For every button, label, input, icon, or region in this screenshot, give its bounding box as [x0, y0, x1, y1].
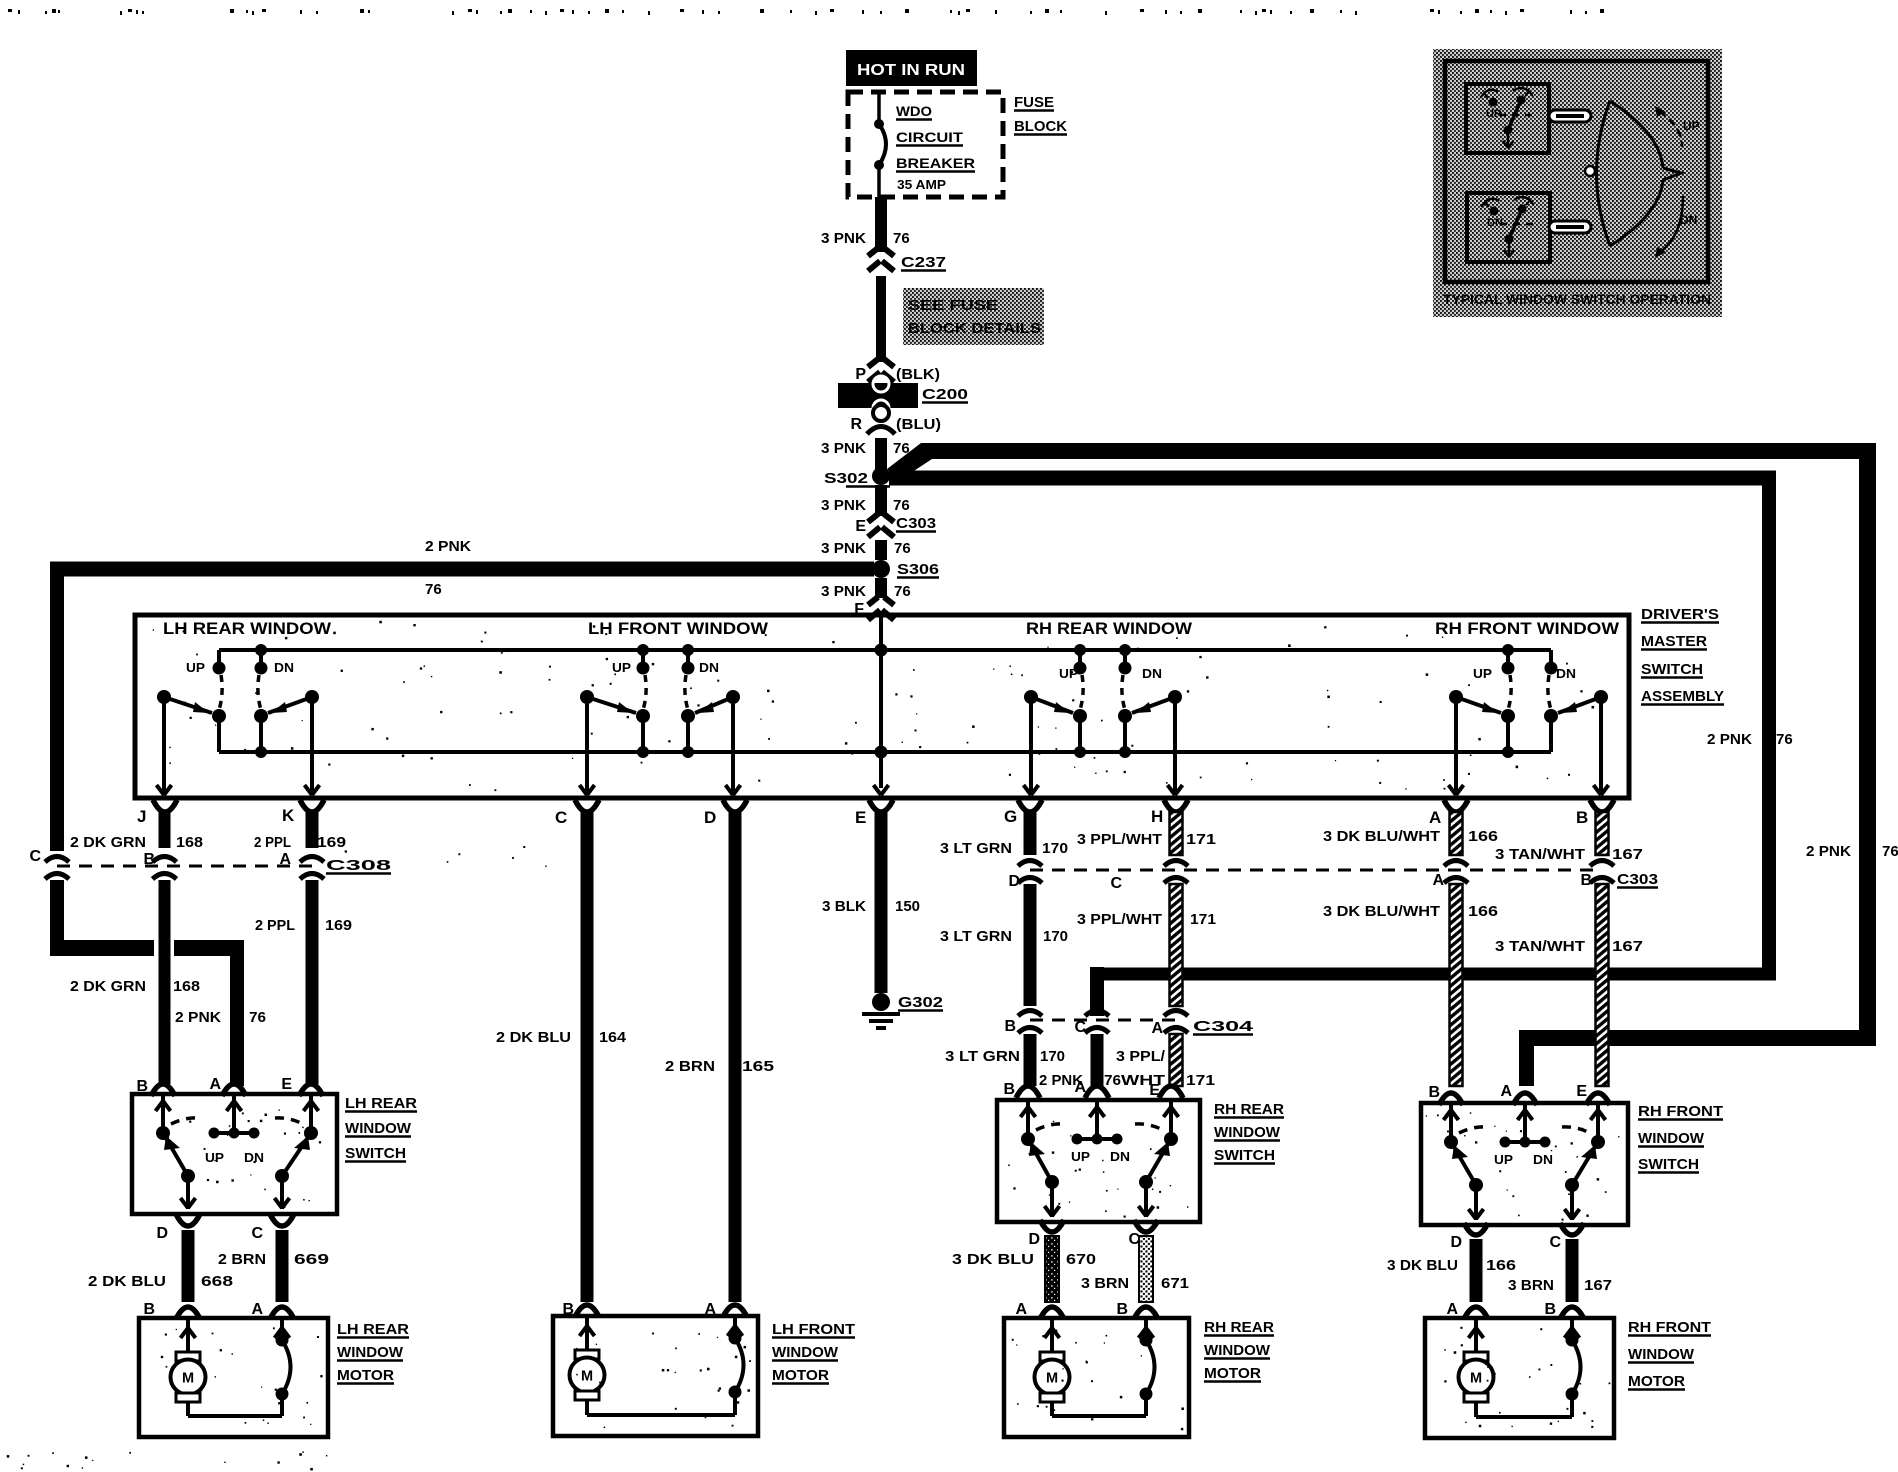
wire 3 PNK 76 (C200 to S302): [875, 438, 887, 470]
svg-text:3 TAN/WHT: 3 TAN/WHT: [1495, 846, 1585, 863]
svg-text:B: B: [143, 851, 155, 868]
svg-text:E: E: [855, 518, 866, 535]
svg-text:3 DK BLU/WHT: 3 DK BLU/WHT: [1323, 903, 1440, 920]
svg-text:G: G: [1004, 807, 1017, 826]
svg-text:J: J: [137, 807, 146, 826]
svg-text:76: 76: [1776, 731, 1793, 748]
svg-text:DN: DN: [699, 660, 719, 675]
bus (lower feed) in master switch assembly: [219, 750, 1551, 754]
svg-text:2 DK BLU: 2 DK BLU: [88, 1273, 166, 1290]
svg-text:2 BRN: 2 BRN: [665, 1058, 715, 1075]
svg-text:M: M: [182, 1371, 194, 1387]
svg-text:CIRCUIT: CIRCUIT: [896, 129, 964, 145]
svg-text:LH REAR: LH REAR: [337, 1321, 409, 1338]
svg-text:UP: UP: [1059, 666, 1078, 681]
svg-text:WINDOW: WINDOW: [1214, 1124, 1281, 1141]
LH front window switch (master assembly): [641, 650, 645, 665]
svg-text:76: 76: [893, 230, 910, 247]
inset UP terminal blade: [1549, 110, 1591, 122]
svg-text:B: B: [1003, 1081, 1015, 1098]
svg-text:RH FRONT: RH FRONT: [1638, 1103, 1723, 1120]
svg-text:670: 670: [1066, 1251, 1096, 1268]
svg-text:3 BRN: 3 BRN: [1081, 1275, 1129, 1292]
svg-text:A: A: [1015, 1301, 1027, 1318]
svg-text:DN: DN: [1680, 213, 1697, 227]
svg-text:C237: C237: [901, 254, 946, 271]
svg-text:A: A: [1446, 1301, 1458, 1318]
wire 3 PNK 76 (C303 to S306): [875, 540, 887, 560]
svg-text:2 PNK: 2 PNK: [175, 1009, 221, 1026]
svg-text:C308: C308: [326, 857, 391, 874]
splice S306: [872, 560, 890, 578]
svg-text:LH FRONT: LH FRONT: [772, 1321, 855, 1338]
LH rear window switch (master assembly): [217, 650, 221, 665]
svg-text:B: B: [1544, 1301, 1556, 1318]
svg-text:BREAKER: BREAKER: [896, 155, 975, 171]
svg-text:R: R: [850, 416, 862, 433]
svg-text:3 DK BLU: 3 DK BLU: [1387, 1257, 1458, 1274]
inset rocker button: [1597, 101, 1611, 246]
svg-text:C: C: [29, 848, 41, 865]
svg-text:76: 76: [894, 540, 911, 557]
bus (upper feed) in master switch assembly: [219, 648, 1551, 652]
svg-text:168: 168: [176, 834, 203, 851]
svg-text:3 PNK: 3 PNK: [821, 540, 866, 557]
svg-text:2 DK BLU: 2 DK BLU: [496, 1029, 571, 1046]
svg-text:LH REAR WINDOW: LH REAR WINDOW: [163, 619, 332, 638]
svg-text:BLOCK DETAILS: BLOCK DETAILS: [908, 320, 1041, 337]
wire 3 LT GRN 170 (pin G to C303): [1024, 812, 1037, 855]
svg-text:SWITCH: SWITCH: [345, 1145, 406, 1162]
wire 3 PPL/WHT 171 (pin H to C303): [1170, 812, 1183, 855]
svg-text:A: A: [1151, 1020, 1163, 1037]
splice S302: [872, 467, 890, 485]
svg-text:UP: UP: [1683, 119, 1700, 133]
svg-text:76: 76: [894, 583, 911, 600]
svg-text:3 PNK: 3 PNK: [821, 583, 866, 600]
svg-text:3 LT GRN: 3 LT GRN: [940, 928, 1012, 945]
svg-text:2 BRN: 2 BRN: [218, 1251, 266, 1268]
svg-text:H: H: [1151, 807, 1163, 826]
inset DN terminal blade: [1549, 221, 1591, 233]
svg-text:3 PNK: 3 PNK: [821, 230, 866, 247]
svg-text:668: 668: [201, 1273, 233, 1290]
wire 2 PNK 76 (C304 to RH rear switch pin A): [1091, 1034, 1104, 1086]
svg-text:HOT IN RUN: HOT IN RUN: [857, 62, 965, 79]
RH front window switch (master assembly): [1506, 650, 1510, 665]
svg-text:UP: UP: [186, 660, 205, 675]
svg-text:168: 168: [173, 978, 200, 995]
svg-text:2 PNK: 2 PNK: [1707, 731, 1752, 748]
wire 3 TAN/WHT 167 (C303 to RH front switch pin E): [1596, 884, 1609, 1086]
svg-text:LH FRONT WINDOW: LH FRONT WINDOW: [588, 619, 769, 638]
svg-text:E: E: [855, 808, 866, 827]
svg-text:2 PNK: 2 PNK: [1806, 843, 1851, 860]
svg-text:A: A: [704, 1301, 716, 1318]
wire 2 DK GRN 168 (C308 to LH rear switch pin B): [159, 880, 171, 1084]
svg-text:76: 76: [1104, 1072, 1121, 1089]
ground G302: [872, 993, 890, 1011]
svg-text:35 AMP: 35 AMP: [897, 177, 946, 192]
svg-text:2 PPL: 2 PPL: [254, 834, 291, 851]
svg-text:3 BLK: 3 BLK: [822, 898, 866, 915]
svg-text:DN: DN: [1533, 1152, 1553, 1167]
svg-text:76: 76: [425, 581, 442, 598]
svg-text:S306: S306: [897, 561, 939, 578]
wire 3 DK BLU/WHT 166 (C303 to RH front switch pin B): [1450, 884, 1463, 1086]
wire 3 PPL/WHT 171 (C304 to RH rear switch pin E): [1170, 1034, 1183, 1086]
svg-text:165: 165: [742, 1058, 774, 1075]
svg-text:B: B: [136, 1078, 148, 1095]
svg-text:171: 171: [1186, 1072, 1215, 1089]
power source label HOT IN RUN: [846, 50, 977, 86]
svg-text:SEE FUSE: SEE FUSE: [908, 297, 998, 314]
svg-text:(BLU): (BLU): [896, 416, 941, 433]
driver's master window switch assembly box: [135, 615, 1629, 798]
svg-text:UP: UP: [1494, 1152, 1513, 1167]
inset UP switch box: [1466, 84, 1549, 153]
circuit breaker WDO 35 AMP: [877, 94, 881, 122]
LH rear window motor (M): [139, 1318, 328, 1437]
svg-text:A: A: [209, 1076, 221, 1093]
wire 2 PNK 76 (C308 pin C to LH rear switch pin A): [50, 880, 64, 948]
svg-text:C303: C303: [1617, 871, 1658, 888]
svg-text:171: 171: [1186, 831, 1216, 848]
svg-text:3 PNK: 3 PNK: [821, 440, 866, 457]
LH front window motor (M): [553, 1316, 758, 1436]
svg-text:B: B: [1116, 1301, 1128, 1318]
fuse block (dashed) with label: [848, 92, 1003, 197]
svg-text:76: 76: [893, 497, 910, 514]
RH rear window switch (master assembly): [1078, 650, 1082, 665]
connector C200: [838, 383, 918, 408]
svg-text:UP: UP: [1473, 666, 1492, 681]
svg-text:2 DK GRN: 2 DK GRN: [70, 978, 146, 995]
wire 3 DK BLU 166 (RH front switch D to motor A): [1470, 1239, 1483, 1302]
svg-text:166: 166: [1468, 828, 1498, 845]
wire 3 BRN 167 (RH front switch C to motor B): [1566, 1239, 1579, 1302]
feed line pin F to buses: [879, 617, 883, 788]
wire 2 PNK 76 (S302 inner loop to C304 pin C): [889, 471, 1776, 486]
svg-text:SWITCH: SWITCH: [1638, 1156, 1699, 1173]
wire 3 PPL/WHT 171 (C303 to C304): [1170, 884, 1183, 1006]
svg-text:2 PPL: 2 PPL: [255, 917, 295, 934]
svg-text:B: B: [1004, 1018, 1016, 1035]
svg-text:3 BRN: 3 BRN: [1508, 1277, 1554, 1294]
svg-text:B: B: [1428, 1084, 1440, 1101]
note SEE FUSE BLOCK DETAILS: [903, 288, 1044, 345]
svg-text:D: D: [1008, 873, 1020, 890]
scan speckle noise: [500, 713, 502, 715]
svg-text:C: C: [251, 1225, 263, 1242]
svg-text:WINDOW: WINDOW: [772, 1344, 839, 1361]
connector C304: [1030, 1019, 1176, 1022]
svg-text:ASSEMBLY: ASSEMBLY: [1641, 688, 1724, 705]
svg-text:A: A: [279, 851, 291, 868]
wire 3 DK BLU/WHT 166 (pin A to C303): [1450, 812, 1463, 855]
svg-text:164: 164: [599, 1029, 627, 1046]
svg-text:UP: UP: [1071, 1149, 1090, 1164]
LH rear window switch pins D and C: [176, 1214, 200, 1226]
svg-text:WINDOW: WINDOW: [345, 1120, 412, 1137]
svg-text:A: A: [1429, 808, 1441, 827]
svg-text:P: P: [855, 366, 866, 383]
svg-text:3 LT GRN: 3 LT GRN: [945, 1048, 1020, 1065]
svg-text:3 TAN/WHT: 3 TAN/WHT: [1495, 938, 1585, 955]
wire 3 PNK (C237 to C200 pin P): [876, 276, 886, 362]
svg-text:170: 170: [1043, 928, 1068, 945]
wire 2 DK BLU 164 (pin C to LH front motor pin B): [581, 812, 594, 1302]
svg-text:2 DK GRN: 2 DK GRN: [70, 834, 146, 851]
wire 3 DK BLU 670 (RH rear switch D to motor A): [1045, 1236, 1059, 1302]
wire 2 BRN 165 (pin D to LH front motor pin A): [729, 812, 742, 1302]
connector C308: [57, 865, 312, 868]
svg-text:169: 169: [317, 834, 346, 851]
RH front window switch: [1421, 1103, 1628, 1225]
svg-text:MOTOR: MOTOR: [1204, 1365, 1261, 1382]
svg-text:DN: DN: [1487, 217, 1503, 229]
svg-text:D: D: [1450, 1234, 1462, 1251]
svg-text:B: B: [1576, 808, 1588, 827]
svg-text:167: 167: [1612, 938, 1643, 955]
wire 2 PPL 169 (pin K to C308): [306, 812, 319, 848]
svg-text:S302: S302: [824, 470, 868, 487]
svg-text:170: 170: [1040, 1048, 1065, 1065]
svg-text:671: 671: [1161, 1275, 1189, 1292]
wire 2 PPL 169 (C308 to LH rear switch pin E): [306, 880, 319, 1084]
svg-text:RH FRONT WINDOW: RH FRONT WINDOW: [1435, 619, 1620, 638]
svg-text:MASTER: MASTER: [1641, 633, 1707, 650]
svg-text:C: C: [1549, 1234, 1561, 1251]
svg-text:76: 76: [1882, 843, 1898, 860]
svg-text:RH REAR: RH REAR: [1214, 1101, 1284, 1118]
svg-text:WINDOW: WINDOW: [1638, 1130, 1705, 1147]
svg-text:DN: DN: [1556, 666, 1576, 681]
svg-text:166: 166: [1468, 903, 1498, 920]
wire 3 LT GRN 170 (C304 to RH rear switch pin B): [1024, 1034, 1037, 1086]
svg-text:M: M: [1046, 1371, 1058, 1387]
svg-text:A: A: [1500, 1083, 1512, 1100]
svg-text:B: B: [1580, 872, 1592, 889]
wire 3 PNK 76 (S306 to master switch pin F): [875, 578, 887, 598]
svg-text:UP: UP: [205, 1150, 224, 1165]
svg-text:SWITCH: SWITCH: [1214, 1147, 1275, 1164]
svg-text:RH REAR WINDOW: RH REAR WINDOW: [1026, 619, 1193, 638]
svg-text:3 PPL/WHT: 3 PPL/WHT: [1077, 911, 1162, 928]
wire 3 PNK 76 (fuse block to C237): [875, 197, 887, 252]
svg-text:3 PNK: 3 PNK: [821, 497, 866, 514]
svg-text:3 DK BLU/WHT: 3 DK BLU/WHT: [1323, 828, 1440, 845]
svg-text:3 PPL/: 3 PPL/: [1116, 1048, 1166, 1065]
RH rear window switch: [997, 1100, 1200, 1222]
inset DN switch box: [1467, 193, 1550, 262]
svg-text:UP: UP: [612, 660, 631, 675]
wire 3 LT GRN 170 (C303 to C304): [1024, 884, 1037, 1006]
svg-text:M: M: [581, 1369, 593, 1385]
wire 2 PNK 76 (S302 right loop to RH front switch pin A): [887, 443, 932, 482]
svg-text:A: A: [1432, 872, 1444, 889]
svg-text:D: D: [156, 1225, 168, 1242]
svg-text:3 PPL/WHT: 3 PPL/WHT: [1077, 831, 1162, 848]
svg-text:2 PNK: 2 PNK: [425, 538, 471, 555]
inset UP rotation arrow: [1659, 111, 1682, 147]
wire 2 DK GRN 168 (pin J to C308): [159, 812, 171, 848]
svg-text:WINDOW: WINDOW: [1628, 1346, 1695, 1363]
svg-text:D: D: [1028, 1231, 1040, 1248]
svg-text:UP: UP: [1486, 108, 1501, 120]
wire 3 BRN 671 (RH rear switch C to motor B): [1139, 1236, 1153, 1302]
svg-text:C: C: [555, 808, 567, 827]
svg-text:3 DK BLU: 3 DK BLU: [952, 1251, 1034, 1268]
svg-text:169: 169: [325, 917, 352, 934]
LH rear window switch: [132, 1094, 337, 1214]
RH front window switch pins D and C: [1464, 1223, 1488, 1235]
svg-text:DRIVER'S: DRIVER'S: [1641, 606, 1719, 623]
svg-text:167: 167: [1584, 1277, 1612, 1294]
svg-text:DN: DN: [1142, 666, 1162, 681]
svg-text:E: E: [281, 1076, 292, 1093]
scan artifacts top edge: [8, 9, 12, 12]
svg-text:WDO: WDO: [896, 103, 932, 119]
svg-text:3 LT GRN: 3 LT GRN: [940, 840, 1012, 857]
svg-text:E: E: [1576, 1083, 1587, 1100]
svg-text:MOTOR: MOTOR: [1628, 1373, 1685, 1390]
svg-text:DN: DN: [274, 660, 294, 675]
svg-text:166: 166: [1486, 1257, 1516, 1274]
wire 3 PNK 76 (S302 to C303): [875, 485, 887, 516]
connector C237: [868, 248, 878, 256]
svg-text:G302: G302: [898, 994, 943, 1011]
svg-text:WINDOW: WINDOW: [337, 1344, 404, 1361]
svg-text:150: 150: [895, 898, 920, 915]
svg-text:WINDOW: WINDOW: [1204, 1342, 1271, 1359]
inset: typical window switch operation panel: [1433, 49, 1722, 317]
svg-text:TYPICAL WINDOW SWITCH OPERATIO: TYPICAL WINDOW SWITCH OPERATION: [1443, 291, 1711, 307]
svg-text:167: 167: [1612, 846, 1643, 863]
wire 2 PNK 76 (S306 left run to C308 pin C): [50, 562, 874, 577]
svg-text:FUSE: FUSE: [1014, 94, 1054, 111]
svg-text:171: 171: [1190, 911, 1216, 928]
svg-text:SWITCH: SWITCH: [1641, 661, 1703, 678]
RH rear window switch pins D and C: [1040, 1220, 1064, 1232]
svg-text:MOTOR: MOTOR: [337, 1367, 394, 1384]
svg-text:D: D: [704, 808, 716, 827]
svg-text:M: M: [1470, 1371, 1482, 1387]
connector C303: [1030, 869, 1602, 872]
svg-text:C303: C303: [896, 515, 936, 532]
inset DN rotation arrow: [1659, 196, 1683, 253]
svg-text:B: B: [562, 1301, 574, 1318]
svg-text:A: A: [251, 1301, 263, 1318]
svg-text:C: C: [1110, 875, 1122, 892]
svg-text:MOTOR: MOTOR: [772, 1367, 829, 1384]
svg-text:LH REAR: LH REAR: [345, 1095, 417, 1112]
svg-text:(BLK): (BLK): [896, 366, 940, 383]
wire 3 BLK 150 (pin E to ground G302): [875, 812, 888, 993]
svg-text:DN: DN: [1110, 1149, 1130, 1164]
RH front window motor (M): [1425, 1318, 1614, 1438]
svg-text:C304: C304: [1193, 1018, 1254, 1035]
wire 2 BRN 669 (LH rear switch C to motor A): [276, 1230, 289, 1302]
svg-text:C: C: [1074, 1019, 1086, 1036]
RH rear window motor (M): [1004, 1318, 1189, 1437]
svg-text:170: 170: [1042, 840, 1068, 857]
wire 2 DK BLU 668 (LH rear switch D to motor B): [182, 1230, 195, 1302]
svg-text:RH FRONT: RH FRONT: [1628, 1319, 1711, 1336]
svg-text:K: K: [282, 806, 295, 825]
wire 3 TAN/WHT 167 (pin B to C303): [1596, 812, 1609, 855]
svg-text:C200: C200: [922, 386, 968, 403]
svg-text:76: 76: [249, 1009, 266, 1026]
svg-text:B: B: [143, 1301, 155, 1318]
svg-text:669: 669: [294, 1251, 329, 1268]
svg-text:RH REAR: RH REAR: [1204, 1319, 1274, 1336]
svg-text:BLOCK: BLOCK: [1014, 118, 1067, 135]
